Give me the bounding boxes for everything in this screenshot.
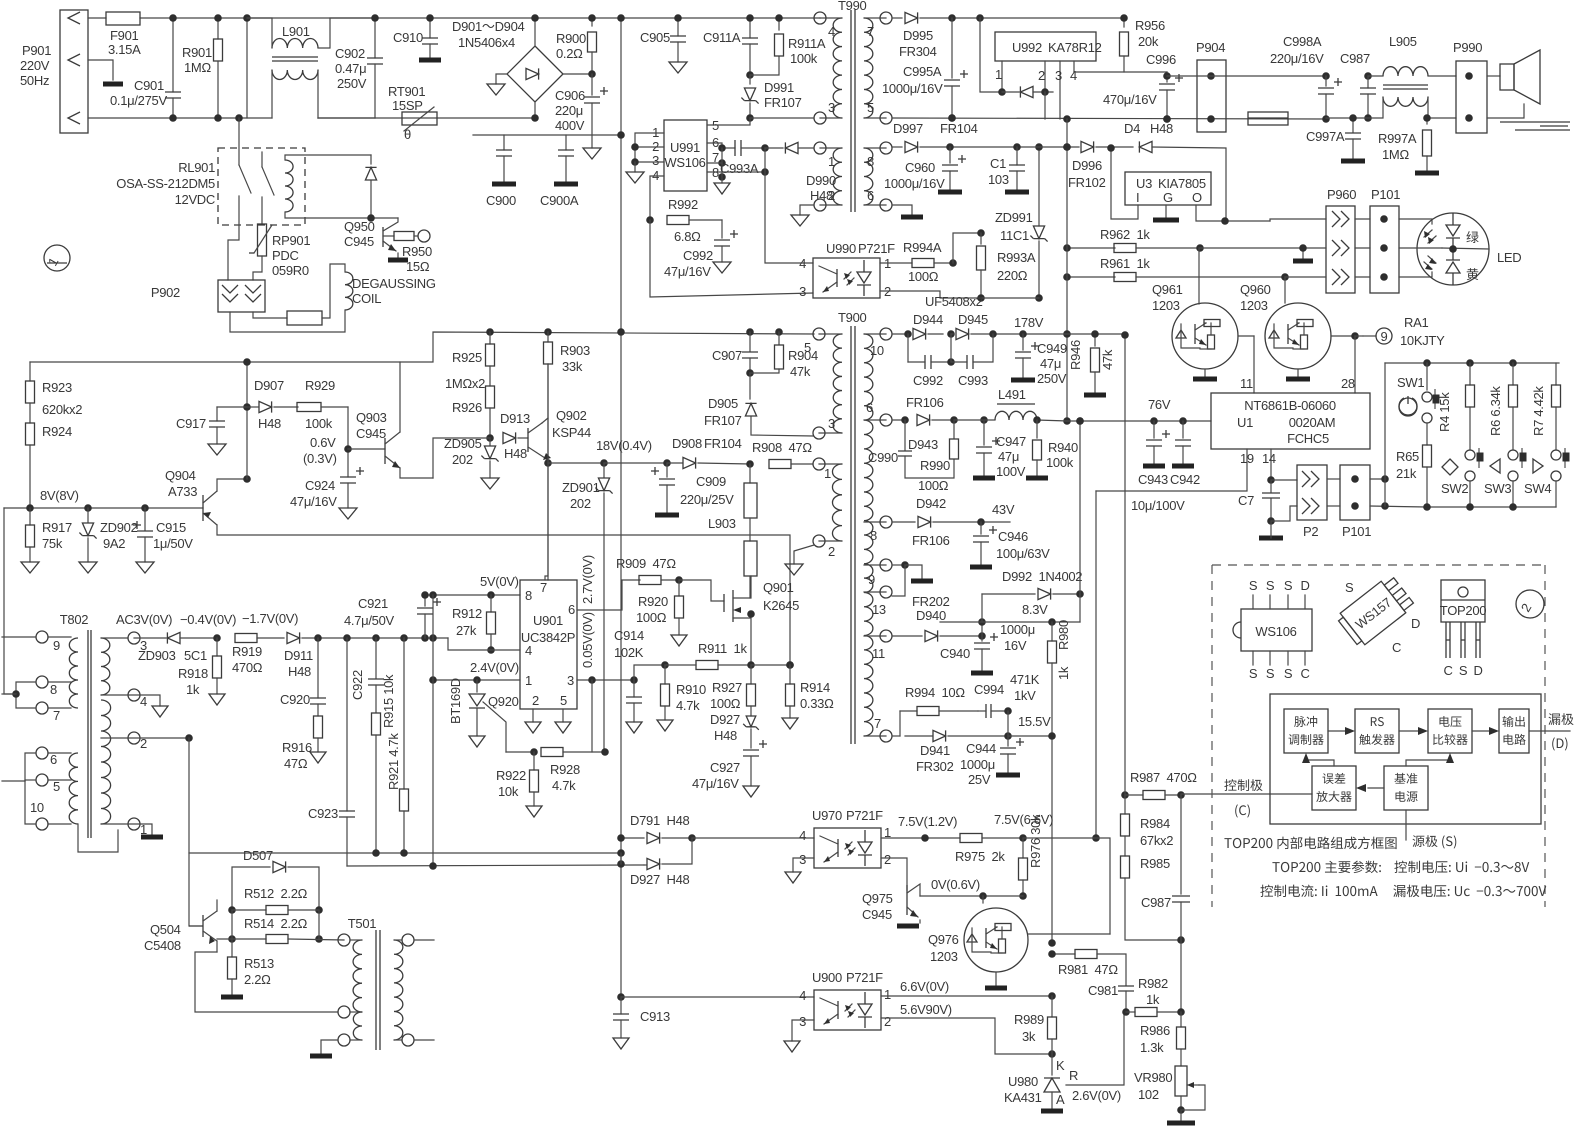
svg-text:470μ/16V: 470μ/16V	[1103, 92, 1157, 107]
wire AC bottom rail	[88, 117, 535, 119]
svg-text:SW4: SW4	[1524, 481, 1551, 496]
svg-text:R956: R956	[1135, 18, 1165, 33]
svg-text:3: 3	[799, 852, 806, 867]
diode D945	[951, 312, 1125, 340]
svg-text:KSP44: KSP44	[552, 425, 591, 440]
svg-text:100V: 100V	[996, 464, 1026, 479]
wire T802 pin1 ground	[128, 824, 163, 837]
svg-text:C997A: C997A	[1306, 129, 1345, 144]
svg-text:8: 8	[867, 154, 874, 169]
svg-text:R981 47Ω: R981 47Ω	[1058, 962, 1118, 977]
svg-text:C913: C913	[640, 1009, 670, 1024]
svg-text:47k: 47k	[790, 364, 811, 379]
wire U991 pin5	[707, 118, 750, 125]
svg-text:6.8Ω: 6.8Ω	[674, 229, 701, 244]
svg-text:FR107: FR107	[704, 413, 742, 428]
svg-text:7: 7	[540, 580, 547, 595]
resistor R989	[1014, 996, 1057, 1054]
svg-text:R946: R946	[1068, 340, 1083, 370]
svg-text:8: 8	[525, 588, 532, 603]
svg-text:L901: L901	[282, 24, 310, 39]
svg-text:θ: θ	[404, 127, 411, 142]
svg-text:100k: 100k	[305, 416, 333, 431]
svg-text:220μ/16V: 220μ/16V	[1270, 51, 1324, 66]
wire U980 ref	[1066, 1012, 1124, 1085]
capacitor C995A	[882, 18, 968, 122]
svg-text:RA1: RA1	[1404, 315, 1428, 330]
svg-text:Q975: Q975	[862, 891, 893, 906]
svg-text:2.6V(0V): 2.6V(0V)	[1072, 1088, 1121, 1103]
svg-text:16V: 16V	[1004, 638, 1027, 653]
svg-text:2: 2	[884, 852, 891, 867]
svg-text:470Ω: 470Ω	[232, 660, 263, 675]
capacitor C1	[988, 147, 1029, 192]
svg-text:C901: C901	[134, 78, 164, 93]
choke L905	[1326, 34, 1456, 118]
svg-text:2: 2	[532, 693, 539, 708]
potentiometer VR980	[1134, 1066, 1205, 1123]
svg-text:D997: D997	[893, 121, 923, 136]
capacitor C902	[318, 14, 383, 118]
diode D997	[892, 121, 1079, 153]
svg-text:1000μ: 1000μ	[1000, 622, 1035, 637]
svg-text:D992 1N4002: D992 1N4002	[1002, 569, 1082, 584]
wire T990 pin6 ground	[892, 205, 923, 217]
svg-text:S: S	[1249, 666, 1258, 681]
svg-text:D4: D4	[1124, 121, 1140, 136]
svg-text:P101: P101	[1371, 187, 1400, 202]
resistor R900	[556, 14, 597, 72]
wire U3 ground	[1153, 205, 1179, 220]
block output circuit	[1499, 709, 1529, 753]
svg-text:R927: R927	[712, 680, 742, 695]
capacitor C946	[970, 522, 1050, 567]
capacitor C947	[973, 420, 1026, 479]
svg-text:1: 1	[525, 673, 532, 688]
svg-text:21k: 21k	[1396, 466, 1417, 481]
diode D992	[982, 569, 1084, 622]
capacitor C992b	[908, 334, 955, 388]
svg-text:T501: T501	[348, 916, 377, 931]
wire Q903 feed	[433, 438, 490, 478]
wire U901 pin7	[545, 364, 548, 580]
diode D943	[892, 395, 988, 452]
svg-text:8V(8V): 8V(8V)	[40, 488, 79, 503]
relay RL901	[116, 148, 305, 280]
svg-text:100Ω: 100Ω	[636, 610, 667, 625]
svg-text:C915: C915	[156, 520, 186, 535]
svg-text:Q920: Q920	[488, 694, 519, 709]
svg-text:1k: 1k	[186, 682, 200, 697]
transformer T900	[804, 310, 892, 744]
svg-text:C924: C924	[305, 478, 335, 493]
label source	[1412, 835, 1456, 848]
zener ZD901	[562, 463, 613, 752]
transistor Q961	[1152, 248, 1254, 379]
resistor R915	[372, 674, 397, 853]
resistor R904	[750, 332, 818, 379]
svg-text:C927: C927	[710, 760, 740, 775]
resistor R928	[506, 748, 609, 794]
diode D911	[284, 632, 448, 679]
svg-text:4.7μ/50V: 4.7μ/50V	[344, 613, 395, 628]
wire T802 pin2	[128, 734, 193, 742]
svg-text:D901～D904: D901～D904	[452, 19, 525, 34]
IC U1 NT6861B	[1211, 393, 1370, 449]
svg-text:COIL: COIL	[352, 291, 381, 306]
svg-text:H48: H48	[1150, 121, 1173, 136]
svg-text:5: 5	[53, 779, 60, 794]
wire 0.6V node	[303, 407, 352, 477]
svg-text:R961 1k: R961 1k	[1100, 256, 1150, 271]
svg-text:C907: C907	[712, 348, 742, 363]
capacitor C993b	[951, 334, 993, 388]
svg-text:11: 11	[872, 646, 885, 661]
resistor R946	[1068, 330, 1115, 395]
wire Q904 emitter	[217, 475, 251, 491]
svg-text:471K: 471K	[1010, 672, 1040, 687]
svg-text:D944: D944	[913, 312, 943, 327]
wire T900 pin2 ground	[785, 545, 814, 575]
capacitor C906	[555, 70, 608, 159]
wire D907 node	[217, 358, 251, 479]
svg-text:(0.3V): (0.3V)	[303, 451, 337, 466]
svg-text:R911A: R911A	[788, 36, 826, 51]
optocoupler U900	[799, 970, 891, 1030]
svg-text:RL901: RL901	[178, 160, 215, 175]
wire to relay	[235, 14, 251, 165]
wire B+ sense rail	[30, 328, 814, 362]
capacitor C997A	[1306, 114, 1365, 161]
svg-text:NT6861B-06060: NT6861B-06060	[1244, 398, 1336, 413]
svg-text:U901: U901	[533, 613, 563, 628]
terminal RA1	[1363, 315, 1445, 348]
svg-text:D940: D940	[916, 608, 946, 623]
IC U991 WS106	[652, 118, 719, 191]
svg-text:2.7V(0V): 2.7V(0V)	[580, 555, 595, 604]
svg-text:C921: C921	[358, 596, 388, 611]
svg-text:C917: C917	[176, 416, 206, 431]
svg-text:1000μ/16V: 1000μ/16V	[884, 176, 945, 191]
resistor R903	[544, 332, 590, 580]
connector P904	[1196, 40, 1226, 132]
svg-text:D995: D995	[903, 28, 933, 43]
wire switch bottom rail	[1423, 503, 1556, 511]
svg-text:C949: C949	[1037, 341, 1067, 356]
svg-text:U970: U970	[812, 808, 842, 823]
svg-text:1: 1	[995, 67, 1002, 82]
resistor R921	[386, 638, 409, 853]
resistor R940	[1026, 420, 1078, 478]
svg-text:Q904: Q904	[165, 468, 196, 483]
svg-text:13: 13	[872, 602, 886, 617]
svg-text:R908 47Ω: R908 47Ω	[752, 440, 812, 455]
svg-text:S: S	[1266, 666, 1275, 681]
svg-text:D907: D907	[254, 378, 284, 393]
svg-text:1MΩx2: 1MΩx2	[445, 376, 485, 391]
svg-text:R929: R929	[305, 378, 335, 393]
svg-text:1: 1	[824, 466, 831, 481]
resistor R916	[282, 716, 326, 771]
wire to U970	[692, 837, 814, 839]
resistor R512	[228, 886, 323, 915]
wire 178V to R987	[1121, 331, 1129, 795]
svg-text:R976 30k: R976 30k	[1028, 814, 1043, 868]
svg-text:C900: C900	[486, 193, 516, 208]
svg-text:ZD991: ZD991	[995, 210, 1033, 225]
diode D944	[892, 312, 955, 340]
svg-text:R985: R985	[1140, 856, 1170, 871]
svg-text:0V(0.6V): 0V(0.6V)	[931, 877, 980, 892]
svg-text:I: I	[1136, 190, 1139, 205]
wire left edge	[4, 508, 16, 694]
wire R987 to control	[1181, 793, 1312, 795]
wire U1 pin19	[1092, 449, 1254, 842]
wire U900 pin3 ground	[784, 1020, 814, 1052]
wire U991 pin8 to U990	[707, 148, 813, 263]
svg-text:0.1μ/275V: 0.1μ/275V	[110, 93, 167, 108]
svg-text:R921 4.7k: R921 4.7k	[386, 733, 401, 790]
svg-text:1: 1	[884, 987, 891, 1002]
svg-text:C905: C905	[640, 30, 670, 45]
svg-text:1k: 1k	[1056, 666, 1071, 680]
svg-text:10KJTY: 10KJTY	[1400, 333, 1445, 348]
capacitor C921	[344, 591, 441, 638]
wire Q960 output	[1331, 332, 1363, 393]
shunt U980 KA431	[1004, 1054, 1121, 1111]
resistor R914	[751, 661, 834, 729]
svg-text:U1: U1	[1237, 415, 1253, 430]
svg-text:R919: R919	[232, 644, 262, 659]
diode D996	[1063, 141, 1133, 190]
wire key row2	[1370, 502, 1426, 510]
svg-text:76V: 76V	[1148, 397, 1171, 412]
svg-text:75k: 75k	[42, 536, 63, 551]
svg-text:0.05V(0V): 0.05V(0V)	[580, 612, 595, 668]
svg-text:S: S	[1284, 578, 1293, 593]
svg-text:1MΩ: 1MΩ	[184, 60, 211, 75]
wire T802 pin4 ground	[128, 695, 168, 717]
resistor R908	[752, 440, 813, 469]
label -1.7V	[242, 611, 298, 626]
bridge rectifier D901-D904	[452, 14, 563, 122]
resistor R4	[1437, 363, 1475, 450]
svg-text:220μ/25V: 220μ/25V	[680, 492, 734, 507]
svg-text:ZD902: ZD902	[100, 520, 138, 535]
svg-text:R910: R910	[676, 682, 706, 697]
svg-text:2: 2	[884, 1014, 891, 1029]
label -0.4V	[180, 612, 236, 627]
speaker	[1487, 50, 1540, 118]
resistor R909	[616, 556, 683, 585]
resistor R985	[1121, 856, 1185, 944]
svg-text:D: D	[1411, 616, 1420, 631]
svg-text:D913: D913	[500, 411, 530, 426]
resistor R990	[918, 420, 959, 493]
resistor R926	[452, 366, 495, 442]
resistor R981	[1048, 950, 1126, 986]
wire 12V audio rail	[1167, 72, 1372, 80]
svg-text:P721F: P721F	[846, 970, 883, 985]
capacitor C907	[712, 332, 758, 377]
svg-text:D507: D507	[243, 848, 273, 863]
wire 12V rail	[892, 114, 1326, 123]
diode relay clamp	[365, 155, 376, 222]
svg-text:R923: R923	[42, 380, 72, 395]
svg-text:2: 2	[828, 544, 835, 559]
capacitor C922	[350, 638, 384, 712]
svg-text:7: 7	[867, 24, 874, 39]
capacitor C900	[486, 135, 516, 208]
diode D991	[741, 75, 801, 122]
svg-text:R924: R924	[42, 424, 72, 439]
zener ZD903	[116, 612, 221, 663]
svg-text:R980: R980	[1056, 620, 1071, 650]
svg-text:DEGAUSSING: DEGAUSSING	[352, 276, 436, 291]
svg-text:R975 2k: R975 2k	[955, 849, 1005, 864]
svg-text:KA78R12: KA78R12	[1048, 40, 1102, 55]
svg-text:RT901: RT901	[388, 84, 425, 99]
svg-text:1: 1	[828, 154, 835, 169]
wire relay coil to Q950	[285, 155, 398, 218]
capacitor C981	[1088, 983, 1134, 1016]
capacitor C923	[308, 638, 355, 866]
wire key row1	[1370, 475, 1389, 483]
svg-text:R4 15k: R4 15k	[1437, 392, 1452, 432]
svg-text:T802: T802	[60, 612, 89, 627]
wire LED center	[1442, 245, 1489, 253]
svg-text:0.6V: 0.6V	[310, 435, 336, 450]
svg-text:220V: 220V	[20, 58, 50, 73]
wire 0V node	[920, 877, 1023, 900]
wire 8.3V rail	[940, 417, 1084, 626]
svg-text:9A2: 9A2	[103, 536, 125, 551]
svg-text:D943: D943	[908, 437, 938, 452]
svg-text:−0.4V(0V): −0.4V(0V)	[180, 612, 236, 627]
resistor R994	[900, 685, 978, 716]
svg-text:1.3k: 1.3k	[1140, 1040, 1164, 1055]
svg-text:1000μ/16V: 1000μ/16V	[882, 81, 943, 96]
svg-text:AC3V(0V): AC3V(0V)	[116, 612, 172, 627]
svg-text:0020AM: 0020AM	[1289, 415, 1336, 430]
svg-text:C945: C945	[862, 907, 892, 922]
wire P901 middle to chassis	[88, 60, 123, 84]
resistor R992	[667, 197, 722, 244]
svg-text:1203: 1203	[930, 949, 958, 964]
svg-text:C940: C940	[940, 646, 970, 661]
wire T802 left pins	[2, 637, 36, 824]
svg-text:R911 1k: R911 1k	[698, 641, 747, 656]
resistor R514	[217, 910, 344, 944]
svg-text:R909 47Ω: R909 47Ω	[616, 556, 676, 571]
indicator LED	[1399, 213, 1489, 285]
diode D791	[617, 813, 696, 844]
transformer T990	[814, 0, 892, 212]
diode D507	[232, 848, 319, 910]
svg-text:Q504: Q504	[150, 922, 181, 937]
diode U992 bypass	[980, 18, 1053, 119]
svg-text:U990: U990	[826, 241, 856, 256]
IC U901 UC3842P	[520, 580, 577, 709]
connector P901	[20, 10, 88, 133]
transistor Q902	[528, 408, 591, 467]
svg-text:7.5V(1.2V): 7.5V(1.2V)	[898, 814, 957, 829]
svg-text:102: 102	[1138, 1087, 1159, 1102]
svg-text:R915 10k: R915 10k	[381, 674, 396, 728]
diagram arrows	[1302, 727, 1570, 840]
svg-text:VR980: VR980	[1134, 1070, 1172, 1085]
svg-text:20k: 20k	[1138, 34, 1159, 49]
diode D940	[892, 594, 986, 661]
svg-text:SW2: SW2	[1441, 481, 1468, 496]
svg-text:R904: R904	[788, 348, 818, 363]
zener ZD902	[79, 508, 138, 573]
label LED colors	[1466, 231, 1478, 243]
resistor R950	[383, 230, 432, 274]
wire T990 pin3	[750, 117, 814, 119]
svg-text:RP901: RP901	[272, 233, 310, 248]
wire Q976 feed	[1023, 838, 1110, 934]
svg-text:2: 2	[1038, 68, 1045, 83]
svg-text:C900A: C900A	[540, 193, 579, 208]
svg-text:3.15A: 3.15A	[108, 42, 141, 57]
svg-text:C960: C960	[905, 160, 935, 175]
svg-text:7.5V(6.6V): 7.5V(6.6V)	[994, 812, 1053, 827]
svg-text:C992: C992	[913, 373, 943, 388]
svg-text:250V: 250V	[337, 76, 367, 91]
label UF5408x2	[925, 294, 983, 309]
svg-text:U3: U3	[1136, 176, 1152, 191]
resistor R922	[496, 752, 542, 817]
svg-text:D911: D911	[284, 648, 313, 663]
svg-text:P901: P901	[22, 43, 51, 58]
svg-text:C: C	[1300, 666, 1309, 681]
block RS trigger	[1355, 709, 1399, 753]
svg-text:R987 470Ω: R987 470Ω	[1130, 770, 1197, 785]
optocoupler U990	[799, 241, 895, 299]
resistor R982	[1126, 976, 1185, 1017]
capacitor C943	[1138, 421, 1170, 487]
diode D995	[892, 12, 1124, 59]
svg-text:L905: L905	[1389, 34, 1417, 49]
resistor R920	[636, 580, 687, 646]
svg-text:10: 10	[30, 800, 44, 815]
svg-text:D990: D990	[806, 173, 836, 188]
svg-text:K2645: K2645	[763, 598, 799, 613]
svg-text:PDC: PDC	[272, 248, 299, 263]
svg-text:9: 9	[868, 572, 875, 587]
resistor R65	[1396, 445, 1432, 507]
block error amplifier	[1312, 766, 1356, 810]
resistor R924	[26, 403, 72, 508]
resistor R910	[657, 665, 706, 731]
svg-text:1203: 1203	[1240, 298, 1268, 313]
transistor Q904	[165, 468, 217, 525]
svg-text:S: S	[1459, 663, 1468, 678]
svg-text:4: 4	[525, 643, 532, 658]
svg-text:FR302: FR302	[916, 759, 954, 774]
wire U901 pin2 ground	[525, 709, 541, 733]
resistor R975	[881, 812, 1053, 864]
transistor Q950	[344, 218, 408, 260]
connector P990	[1453, 40, 1487, 133]
svg-text:1203: 1203	[1152, 298, 1180, 313]
IC U992 KA78R12	[995, 32, 1102, 119]
resistor R912	[452, 595, 496, 654]
svg-text:D908: D908	[672, 436, 702, 451]
svg-text:FR102: FR102	[1068, 175, 1106, 190]
svg-text:9: 9	[53, 638, 60, 653]
